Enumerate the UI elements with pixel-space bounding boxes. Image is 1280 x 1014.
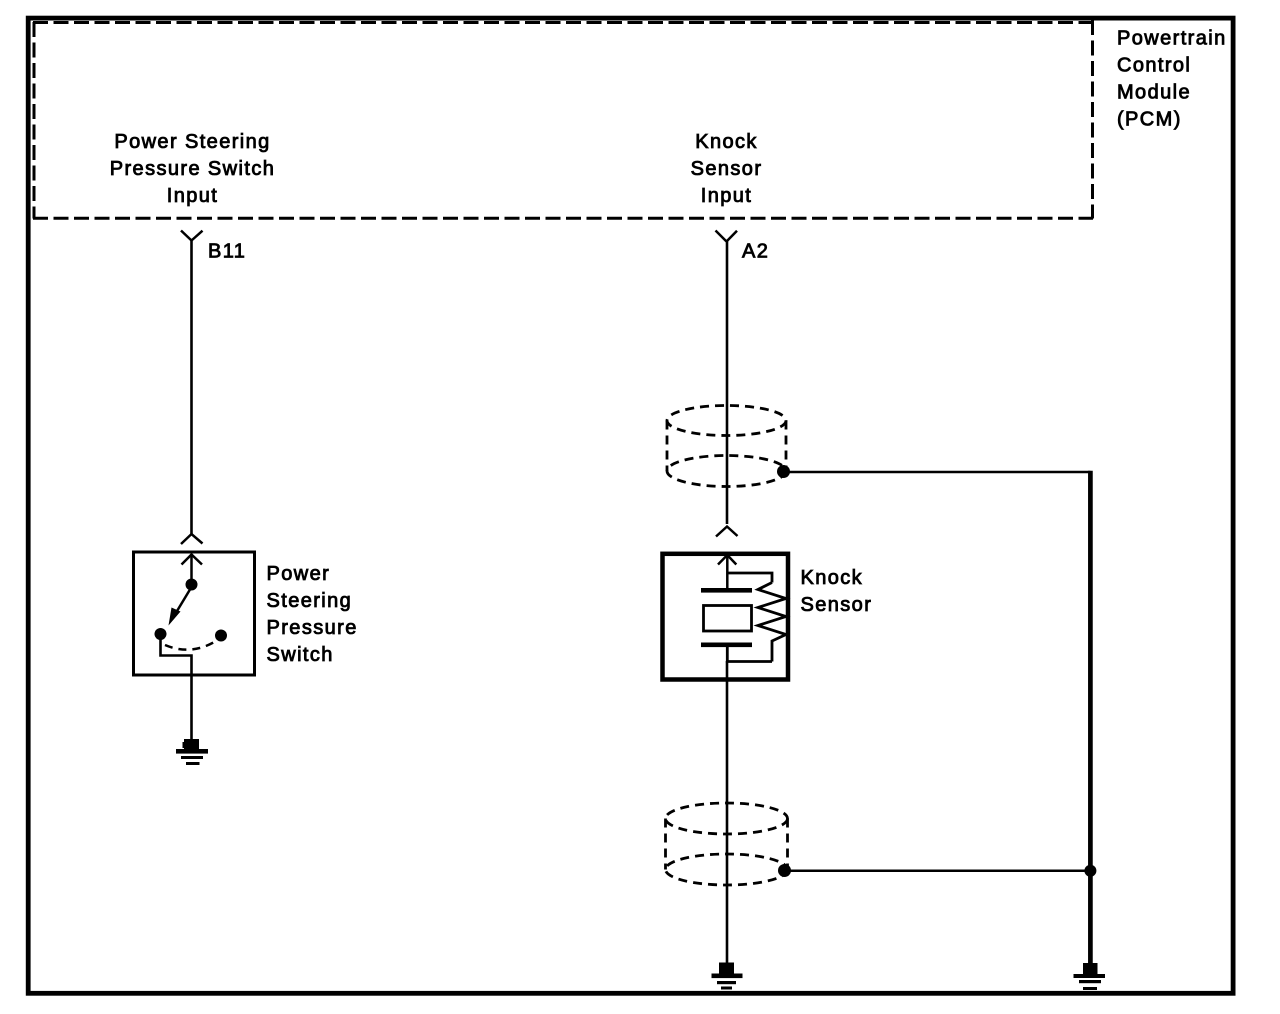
- svg-text:Control: Control: [1117, 55, 1191, 77]
- label Knock Sensor Input: [691, 131, 763, 207]
- piezo capacitor bottom plate: [701, 643, 752, 648]
- wire shield lower to right drain: [785, 870, 1091, 873]
- wire switch to ground: [190, 675, 193, 740]
- svg-text:Knock: Knock: [801, 567, 864, 589]
- label Powertrain Control Module (PCM): [1117, 28, 1227, 131]
- wire knock sensor to lower shield and ground: [726, 661, 729, 963]
- resistor R (zigzag): [758, 583, 786, 662]
- switch common contact dot: [186, 579, 198, 591]
- piezo capacitor top plate: [701, 588, 752, 593]
- ground G3 (right): [1074, 963, 1106, 990]
- svg-text:Knock: Knock: [695, 131, 758, 153]
- svg-text:(PCM): (PCM): [1117, 109, 1182, 131]
- power steering pressure switch box: [134, 552, 255, 675]
- wire B11 to pressure switch: [190, 241, 193, 534]
- wire shield upper to right drain: [784, 471, 1091, 474]
- svg-text:A2: A2: [742, 241, 769, 263]
- shield upper junction dot: [777, 465, 790, 478]
- wire A2 to knock sensor: [726, 242, 729, 525]
- resistor top lead: [727, 573, 772, 583]
- shield upper (dashed cylinder): [667, 406, 786, 487]
- label Knock Sensor: [801, 567, 873, 616]
- wire from contact to box exit: [161, 639, 192, 675]
- drain wire right vertical: [1088, 471, 1093, 963]
- svg-text:Switch: Switch: [267, 644, 334, 666]
- pin A2 connector Y: [716, 231, 738, 242]
- ground G1 (left): [176, 739, 208, 765]
- svg-text:Input: Input: [167, 185, 218, 207]
- drain junction dot: [1084, 865, 1096, 877]
- connector chevron above knock sensor: [716, 527, 738, 537]
- svg-text:Powertrain: Powertrain: [1117, 28, 1227, 50]
- svg-text:Input: Input: [701, 185, 752, 207]
- svg-text:Sensor: Sensor: [691, 158, 763, 180]
- knock sensor input arrow: [718, 555, 736, 592]
- shield lower (dashed cylinder): [666, 803, 788, 885]
- svg-text:Steering: Steering: [267, 590, 353, 612]
- svg-text:Pressure: Pressure: [267, 617, 358, 639]
- svg-text:B11: B11: [208, 241, 246, 263]
- PCM dashed box: [33, 20, 1093, 219]
- switch movable arm with arrowhead: [169, 587, 192, 626]
- svg-text:Sensor: Sensor: [801, 594, 873, 616]
- svg-text:Power: Power: [267, 563, 331, 585]
- svg-text:Module: Module: [1117, 82, 1191, 104]
- svg-text:Pressure Switch: Pressure Switch: [110, 158, 276, 180]
- connector chevron above pressure switch: [181, 534, 203, 544]
- ground G2 (center): [712, 963, 743, 990]
- switch lower-left contact dot: [155, 628, 167, 640]
- switch input arrow: [182, 554, 203, 584]
- label Power Steering Pressure Switch Input: [110, 131, 276, 207]
- pin B11 connector Y: [181, 231, 203, 241]
- shield lower junction dot: [778, 864, 791, 877]
- label Power Steering Pressure Switch: [267, 563, 358, 666]
- switch lower-right contact dot: [215, 630, 227, 642]
- switch actuation dashed arc: [165, 641, 216, 650]
- capacitor bottom lead and resistor bottom lead: [727, 647, 772, 662]
- svg-text:Power Steering: Power Steering: [114, 131, 270, 153]
- knock sensor box: [663, 554, 789, 680]
- piezo element rectangle: [704, 606, 752, 632]
